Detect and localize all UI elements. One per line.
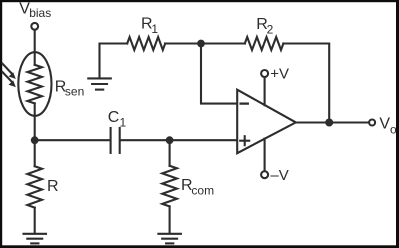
wire Vbias terminal to Rsen bbox=[34, 30, 36, 65]
terminal +V bbox=[261, 70, 268, 77]
terminal Vbias bbox=[31, 23, 38, 30]
svg-text:bias: bias bbox=[29, 6, 51, 20]
wire ground up to R1 bbox=[100, 44, 128, 79]
capacitor C1 bbox=[111, 128, 120, 153]
node A junction (Rsen / R / C1) bbox=[31, 136, 39, 144]
label R1 bbox=[141, 15, 158, 35]
wire node A to resistor R bbox=[34, 140, 36, 166]
svg-text:V: V bbox=[379, 116, 390, 133]
wire C1 to node B bbox=[121, 139, 170, 141]
svg-text:2: 2 bbox=[267, 22, 274, 36]
wire node A to C1 bbox=[35, 139, 110, 141]
resistor Rcom bbox=[162, 166, 177, 207]
label Vbias bbox=[19, 1, 51, 20]
label C1 bbox=[108, 109, 127, 130]
resistor R2 bbox=[245, 37, 284, 50]
op-amp U1 bbox=[237, 90, 296, 154]
label Rsen bbox=[55, 78, 84, 98]
terminal Vo bbox=[369, 120, 375, 126]
svg-text:1: 1 bbox=[151, 22, 158, 36]
wire node C to R2 bbox=[201, 42, 245, 44]
label R bbox=[47, 178, 59, 195]
svg-text:sen: sen bbox=[65, 85, 84, 99]
svg-text:C: C bbox=[108, 109, 120, 126]
label Rcom bbox=[181, 177, 214, 197]
node C junction (R1 / R2 / op-amp -) bbox=[197, 40, 205, 48]
wire node B to Rcom bbox=[169, 140, 171, 166]
light arrow 2 into Rsen bbox=[2, 72, 15, 87]
wire op-amp output to Vo terminal bbox=[296, 121, 370, 123]
label Vo bbox=[379, 116, 397, 137]
photoresistor Rsen bbox=[18, 52, 51, 116]
op-amp non-inverting input symbol (+) bbox=[240, 136, 249, 145]
wire +V terminal to op-amp bbox=[264, 77, 266, 105]
wire Rcom to ground bbox=[169, 206, 171, 233]
svg-text:R: R bbox=[47, 178, 59, 195]
node B junction (C1 / Rcom / op-amp +) bbox=[166, 136, 174, 144]
label R2 bbox=[256, 16, 273, 36]
terminal -V bbox=[261, 171, 268, 178]
light arrow 1 into Rsen bbox=[2, 64, 15, 79]
wire R to ground bbox=[34, 208, 36, 234]
label +V bbox=[270, 66, 289, 83]
svg-text:+V: +V bbox=[270, 66, 289, 83]
op-amp inverting input symbol (-) bbox=[241, 102, 248, 104]
resistor R1 bbox=[127, 37, 165, 50]
node D junction (output / feedback) bbox=[325, 119, 333, 127]
resistor R bbox=[27, 166, 42, 207]
wire node C down to op-amp - input bbox=[201, 44, 237, 104]
svg-text:–V: –V bbox=[270, 167, 288, 184]
wire op-amp to -V terminal bbox=[264, 139, 266, 172]
wire Rsen to node A bbox=[34, 103, 36, 140]
ground under R bbox=[24, 234, 47, 244]
svg-text:1: 1 bbox=[120, 116, 127, 130]
wire R1 to node C bbox=[165, 42, 201, 44]
ground at R1 left bbox=[88, 78, 111, 89]
svg-text:com: com bbox=[191, 184, 214, 198]
wire R2 to output node D bbox=[283, 44, 329, 123]
ground under Rcom bbox=[158, 234, 181, 244]
wire node B to op-amp + input bbox=[170, 139, 238, 141]
svg-text:o: o bbox=[390, 122, 397, 136]
label -V bbox=[270, 167, 288, 184]
